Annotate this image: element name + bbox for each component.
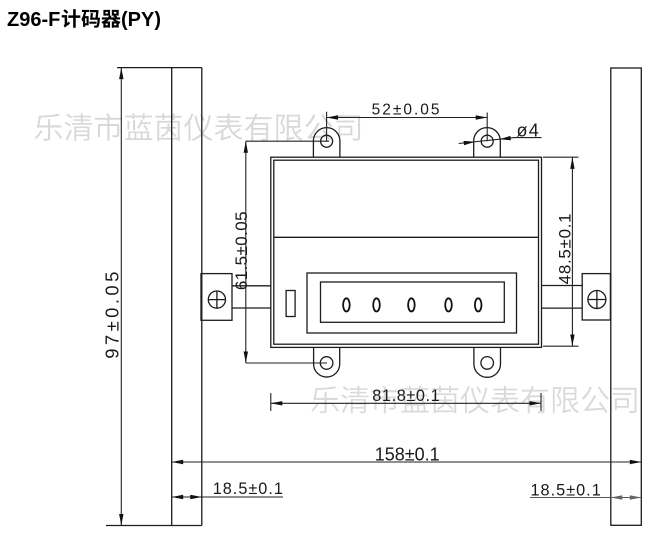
dimension 18.5±0.1 left line bbox=[172, 496, 283, 498]
svg-text:ø4: ø4 bbox=[517, 121, 540, 141]
dimension 18.5±0.1 right line bbox=[530, 497, 641, 499]
top-left mounting ear bbox=[313, 128, 340, 158]
dimension 97±0.05 line bbox=[120, 68, 122, 526]
right clamp bracket bbox=[582, 274, 610, 320]
device body inner case line bbox=[274, 160, 539, 344]
svg-text:81.8±0.1: 81.8±0.1 bbox=[372, 387, 440, 405]
left mounting rail bbox=[106, 68, 202, 526]
svg-text:97±0.05: 97±0.05 bbox=[102, 268, 123, 359]
counter display window bbox=[321, 282, 505, 322]
title: Z96-F counter model heading bbox=[7, 9, 161, 31]
left clamp screw bbox=[208, 291, 225, 308]
right clamp screw bbox=[588, 291, 606, 309]
dimension 158±0.1 line bbox=[172, 461, 642, 463]
watermark upper: company name bbox=[35, 113, 360, 141]
counter digits 0 0 0 0 0 bbox=[343, 298, 481, 311]
svg-text:18.5±0.1: 18.5±0.1 bbox=[531, 481, 602, 499]
svg-text:158±0.1: 158±0.1 bbox=[375, 444, 440, 464]
dimension 81.8±0.1 lines bbox=[271, 393, 541, 411]
device face divider line bbox=[274, 236, 539, 238]
dimension 48.5±0.1 lines bbox=[543, 157, 579, 346]
svg-text:18.5±0.1: 18.5±0.1 bbox=[213, 480, 284, 498]
bottom-right mounting ear bbox=[474, 347, 501, 377]
watermark lower: company name bbox=[311, 386, 636, 414]
left clamp bracket bbox=[201, 274, 232, 321]
bottom-left mounting ear bbox=[314, 347, 340, 377]
right clamp connector lines bbox=[542, 286, 583, 309]
bottom-left ear hole bbox=[320, 357, 333, 370]
reset slot bbox=[286, 291, 295, 317]
device body outer case bbox=[271, 157, 542, 347]
dimension 52±0.05 lines bbox=[327, 112, 488, 141]
svg-text:48.5±0.1: 48.5±0.1 bbox=[556, 213, 575, 285]
top-right ear hole bbox=[481, 135, 493, 147]
top-right mounting ear bbox=[474, 128, 501, 158]
extension line from 61.5 dim to top ear center bbox=[246, 141, 329, 363]
bottom-right ear hole bbox=[481, 357, 494, 370]
svg-text:52±0.05: 52±0.05 bbox=[372, 102, 442, 119]
top-left ear hole bbox=[321, 135, 333, 147]
svg-text:Z96-F: Z96-F bbox=[7, 9, 60, 31]
svg-text:61.5±0.05: 61.5±0.05 bbox=[232, 211, 251, 290]
right mounting rail bbox=[611, 68, 642, 525]
dimension texts bbox=[102, 102, 602, 500]
left clamp connector lines bbox=[232, 286, 271, 308]
counter display bezel bbox=[307, 273, 517, 333]
leader line for hole diameter Ø4 bbox=[459, 138, 542, 144]
svg-text:(PY): (PY) bbox=[121, 9, 161, 31]
